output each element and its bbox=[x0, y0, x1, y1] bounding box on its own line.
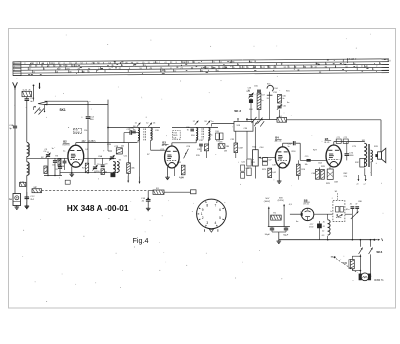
dashed box S1 switch bbox=[333, 201, 345, 222]
IF1 capacitor C15A bbox=[132, 130, 136, 132]
svg-text:S14: S14 bbox=[274, 88, 277, 90]
junction dot C16 bbox=[147, 198, 149, 200]
wire pot bottom bbox=[254, 166, 256, 179]
wire B8 left bbox=[290, 213, 302, 215]
svg-text:5: 5 bbox=[219, 216, 221, 220]
resistor R7 under B2 bbox=[85, 163, 88, 173]
wire lamp right bbox=[369, 254, 371, 274]
wire padder bottom bbox=[44, 175, 62, 177]
box C28 20k bbox=[116, 148, 122, 154]
wire anode B2 up bbox=[75, 143, 77, 146]
grid components left of B2 bbox=[58, 159, 61, 167]
wire down to speaker bbox=[380, 120, 382, 152]
svg-text:1M: 1M bbox=[224, 150, 227, 152]
chassis arrows under transformer bbox=[357, 175, 359, 181]
ground under B3 bbox=[167, 167, 169, 176]
svg-text:(160V): (160V) bbox=[264, 201, 271, 203]
svg-text:(165V): (165V) bbox=[278, 200, 285, 202]
coil S1 bbox=[27, 143, 29, 147]
resistor 40k bbox=[127, 163, 131, 174]
capacitor C74 bbox=[345, 153, 350, 155]
grid cap B5 bbox=[307, 159, 311, 161]
top boxes above B5 bbox=[336, 139, 341, 143]
trimmer C11 bbox=[110, 156, 114, 158]
SK2 cluster2 trimmer bbox=[277, 105, 281, 107]
svg-text:6800: 6800 bbox=[349, 155, 353, 157]
wires mains cluster bbox=[345, 213, 352, 215]
svg-text:9: 9 bbox=[202, 208, 204, 212]
svg-text:46: 46 bbox=[350, 204, 352, 206]
capacitor C5 bbox=[53, 160, 57, 162]
IF1 bottom leads bbox=[137, 140, 139, 142]
svg-text:20k: 20k bbox=[121, 145, 124, 147]
wires under B5 bbox=[329, 167, 331, 169]
ground under coil bbox=[26, 205, 28, 207]
wire anode B3 bbox=[171, 143, 173, 146]
rectifier B8 circle bbox=[301, 208, 313, 220]
capacitor C77 bbox=[317, 224, 321, 228]
svg-text:2n: 2n bbox=[105, 172, 107, 174]
svg-text:4700: 4700 bbox=[309, 226, 313, 228]
wire anode B5 bbox=[333, 142, 335, 145]
capacitor C1A bbox=[13, 125, 17, 127]
svg-text:C77: C77 bbox=[310, 224, 313, 226]
switch SK1 contacts bbox=[35, 108, 41, 114]
capacitor C6 bbox=[58, 166, 62, 168]
svg-text:1n: 1n bbox=[211, 121, 213, 123]
volume potentiometer bbox=[253, 150, 259, 166]
box 4n5 on bus bbox=[277, 117, 287, 122]
SK2 blob bbox=[249, 100, 253, 103]
resistor det bbox=[234, 143, 238, 153]
wire x139 down bbox=[139, 133, 141, 177]
detector wire bus bbox=[246, 119, 277, 121]
svg-text:40: 40 bbox=[323, 221, 325, 223]
wire anode B4 up bbox=[282, 143, 284, 147]
svg-text:SK 2: SK 2 bbox=[234, 109, 241, 113]
boxes under B5 bbox=[316, 169, 320, 179]
resistor R26 bbox=[297, 164, 301, 175]
tube B3 envelope bbox=[165, 146, 180, 168]
ground under B4 bbox=[278, 167, 280, 180]
SK2 cluster2 box bbox=[278, 95, 282, 104]
socket bottom marks bbox=[204, 229, 206, 232]
IF transformer 2 bbox=[196, 128, 198, 131]
capacitor C12 bbox=[25, 196, 30, 198]
wire to volume pot bbox=[254, 127, 256, 150]
svg-text:UL 41: UL 41 bbox=[324, 142, 330, 144]
switch SK4 contact right bbox=[369, 240, 371, 247]
svg-text:C19: C19 bbox=[305, 156, 308, 158]
svg-text:50μF: 50μF bbox=[265, 234, 271, 236]
svg-text:7: 7 bbox=[214, 203, 216, 207]
capacitor C16 4n bbox=[146, 199, 151, 201]
svg-text:ECH81: ECH81 bbox=[74, 132, 80, 134]
wire x88 down to resistor bbox=[87, 119, 89, 163]
svg-text:8: 8 bbox=[206, 203, 208, 207]
resistor R30 bbox=[350, 260, 354, 269]
svg-text:TS2: TS2 bbox=[74, 130, 77, 132]
svg-text:EF41: EF41 bbox=[173, 135, 177, 137]
box left of transformer bbox=[360, 158, 365, 167]
svg-text:2: 2 bbox=[202, 216, 204, 220]
wire det verticals bbox=[235, 131, 237, 143]
ground electrolytic bbox=[278, 232, 280, 240]
svg-text:1n: 1n bbox=[52, 148, 54, 150]
switch SK4 contact left bbox=[359, 240, 361, 247]
mech link dash bbox=[334, 256, 336, 258]
box end of link bbox=[191, 190, 197, 194]
wire anode bus y142 bbox=[76, 142, 137, 144]
svg-text:0,5M: 0,5M bbox=[238, 147, 243, 149]
svg-text:41: 41 bbox=[323, 226, 325, 228]
svg-text:R45F 71: R45F 71 bbox=[374, 279, 384, 282]
svg-text:+2: +2 bbox=[363, 184, 365, 186]
trimmer C10 bbox=[93, 166, 97, 168]
wire link right bbox=[148, 190, 153, 192]
arrow down input bbox=[39, 83, 41, 89]
svg-text:47: 47 bbox=[355, 204, 357, 206]
node dot top bbox=[33, 85, 35, 87]
wire coil S4 bottom bbox=[112, 172, 114, 173]
svg-text:42: 42 bbox=[322, 231, 324, 233]
wire C15 leads bbox=[124, 132, 130, 134]
svg-text:+3: +3 bbox=[356, 184, 358, 186]
SK2 lower contacts bbox=[254, 121, 258, 126]
wire down x88 bbox=[87, 101, 89, 116]
wire resistor 40k verticals bbox=[128, 143, 130, 163]
svg-text:6: 6 bbox=[219, 208, 221, 212]
heater bus bbox=[279, 239, 374, 241]
wire coil to ground bbox=[26, 175, 28, 204]
wire B2 right bbox=[84, 157, 116, 159]
svg-text:C30: C30 bbox=[186, 127, 189, 129]
svg-text:C47: C47 bbox=[268, 159, 271, 161]
dial scale band bbox=[13, 57, 392, 76]
svg-text:C61: C61 bbox=[283, 105, 286, 107]
capacitor C58 4n7 bbox=[25, 98, 30, 100]
coil S2 bbox=[27, 162, 29, 165]
arrow up right bbox=[283, 204, 285, 226]
svg-text:50μF: 50μF bbox=[283, 234, 289, 236]
box under pot right bbox=[268, 168, 272, 177]
antenna Y bbox=[13, 82, 15, 87]
svg-text:C56: C56 bbox=[248, 87, 251, 89]
wire box to coils bbox=[26, 97, 28, 99]
tube socket circle bbox=[197, 199, 227, 229]
svg-text:128: 128 bbox=[173, 137, 176, 139]
wire IF1 to B3 grid bbox=[151, 149, 165, 151]
chassis arrow x139 bbox=[139, 177, 141, 184]
mains plug end bbox=[373, 239, 375, 241]
svg-text:C74: C74 bbox=[349, 153, 352, 155]
wire SK1 right upper bbox=[45, 100, 89, 102]
svg-text:C31: C31 bbox=[197, 149, 200, 151]
svg-text:UY 41: UY 41 bbox=[303, 203, 309, 205]
svg-text:SK4: SK4 bbox=[376, 250, 382, 254]
boxes under IF2 bbox=[199, 143, 203, 145]
input socket Aa bbox=[13, 194, 21, 206]
svg-text:0,02: 0,02 bbox=[272, 172, 276, 174]
small box near HX text bbox=[65, 180, 70, 184]
svg-text:S31: S31 bbox=[362, 140, 365, 142]
det bottom boxes bbox=[241, 165, 245, 171]
svg-text:50V: 50V bbox=[265, 198, 269, 200]
svg-text:6,3: 6,3 bbox=[322, 235, 325, 237]
arrow up left bbox=[268, 207, 270, 227]
ground under B2 bbox=[71, 167, 73, 173]
speaker bbox=[378, 152, 382, 159]
wire SK1 right lower bbox=[45, 103, 109, 105]
svg-text:SK1: SK1 bbox=[60, 108, 66, 112]
wire lamp left bbox=[359, 254, 361, 273]
wire B8 right bbox=[314, 213, 333, 215]
svg-text:C57: C57 bbox=[261, 94, 264, 96]
svg-text:S18: S18 bbox=[237, 125, 240, 127]
small box osc bbox=[44, 166, 47, 174]
svg-text:C2B: C2B bbox=[107, 144, 112, 146]
cap cluster right of B2 bbox=[101, 164, 105, 166]
wire coil join bbox=[26, 157, 28, 162]
svg-text:R16: R16 bbox=[215, 131, 218, 133]
long wire to output bbox=[287, 119, 382, 121]
pilot lamp bbox=[359, 274, 362, 280]
svg-text:4n: 4n bbox=[282, 98, 284, 100]
svg-text:180: 180 bbox=[226, 146, 229, 148]
svg-text:C60: C60 bbox=[282, 96, 285, 98]
mains trimmer cluster bbox=[351, 206, 355, 208]
wire antenna down bbox=[14, 90, 16, 126]
dashed box TS2 ECH81 bbox=[74, 128, 82, 133]
tube B5 envelope bbox=[326, 145, 342, 167]
SK2 switch contacts bbox=[252, 117, 257, 123]
wire IF2 to detector bbox=[212, 123, 235, 125]
wire osc mid bbox=[27, 157, 68, 159]
SK2 vertical stubs bbox=[250, 98, 252, 119]
chassis arrow under B3 bbox=[173, 168, 175, 177]
svg-text:S13: S13 bbox=[267, 83, 270, 85]
boxes right of pot bbox=[262, 158, 267, 161]
capacitor C15 4n bbox=[129, 130, 131, 134]
transformer bottom wires bbox=[364, 168, 366, 176]
wire under IF2 bbox=[200, 146, 202, 152]
electrolytic bracket bbox=[268, 226, 290, 228]
svg-text:5n: 5n bbox=[288, 146, 290, 148]
coupling cap C52 bbox=[292, 141, 294, 145]
svg-text:56V: 56V bbox=[279, 197, 283, 199]
svg-text:3: 3 bbox=[206, 221, 208, 225]
svg-text:4n: 4n bbox=[287, 102, 289, 104]
svg-text:EF 41: EF 41 bbox=[162, 145, 168, 147]
diode diagonal B3 bbox=[184, 149, 189, 159]
dashed link line bbox=[42, 190, 149, 192]
ground under C16 bbox=[147, 201, 149, 207]
wire y127 to IF1 bbox=[108, 127, 160, 129]
svg-text:70: 70 bbox=[187, 130, 189, 132]
wire to input socket bbox=[14, 128, 16, 193]
ground under socket bbox=[16, 206, 18, 208]
svg-text:C72: C72 bbox=[344, 137, 347, 139]
svg-text:10k: 10k bbox=[305, 164, 308, 166]
capacitor C14 400 bbox=[86, 116, 91, 118]
SK2 stack boxes bbox=[257, 93, 261, 110]
scan noise bbox=[191, 210, 194, 213]
detector box bbox=[234, 121, 253, 131]
black blob C30 bbox=[111, 173, 115, 177]
svg-text:4: 4 bbox=[214, 221, 216, 225]
wire down x108 bbox=[107, 100, 109, 148]
small box left edge bbox=[20, 182, 26, 186]
svg-text:1n: 1n bbox=[130, 130, 132, 132]
heater winding bbox=[328, 220, 330, 224]
wires resistor R30 bbox=[351, 256, 353, 259]
IF transformer 1 bbox=[138, 128, 140, 131]
resistor under B3 right bbox=[181, 165, 185, 175]
IF2 capacitor C30 bbox=[190, 128, 194, 130]
tube B2 envelope bbox=[68, 145, 84, 167]
switch SK1 pointer bbox=[38, 102, 47, 105]
boxes AVC bbox=[216, 133, 220, 140]
chassis arrow x127 bbox=[127, 176, 129, 183]
svg-text:R26: R26 bbox=[301, 169, 304, 171]
svg-text:4n5: 4n5 bbox=[279, 116, 282, 118]
dashed box TS3 bbox=[173, 131, 181, 140]
IF2 bottom leads bbox=[195, 138, 197, 141]
page border frame bbox=[9, 29, 396, 309]
svg-text:C71: C71 bbox=[337, 137, 340, 139]
svg-text:1: 1 bbox=[201, 212, 203, 216]
ground under C12 bbox=[26, 199, 28, 205]
svg-text:C36: C36 bbox=[244, 128, 247, 130]
trimmer C4 bbox=[46, 154, 50, 156]
wire padder verticals bbox=[47, 152, 49, 154]
svg-text:Fig.4: Fig.4 bbox=[133, 236, 149, 245]
SK2 loop circle bbox=[267, 85, 273, 91]
svg-text:HX 348 A -00-01: HX 348 A -00-01 bbox=[67, 203, 129, 213]
bottom bus B2 bbox=[60, 172, 118, 174]
wire C52 to grid B5 bbox=[296, 142, 300, 144]
wire grid B4 bbox=[263, 156, 276, 158]
tube B4 envelope bbox=[275, 147, 290, 168]
svg-text:ECH 81: ECH 81 bbox=[63, 144, 71, 146]
svg-text:1n: 1n bbox=[261, 100, 263, 102]
coil S4 pair bbox=[113, 162, 115, 166]
svg-text:TS3: TS3 bbox=[173, 132, 176, 134]
box C38 bbox=[218, 144, 225, 149]
